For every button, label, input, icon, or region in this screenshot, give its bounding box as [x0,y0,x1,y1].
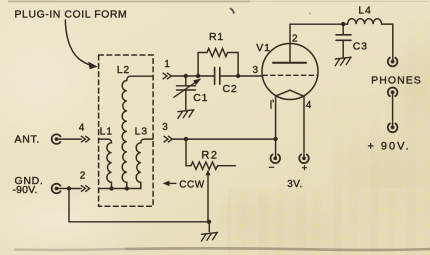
svg-text:CCW: CCW [179,179,204,190]
svg-text:ANT.: ANT. [15,134,41,146]
svg-text:PHONES: PHONES [371,75,422,87]
svg-text:3: 3 [162,122,168,133]
svg-text:C1: C1 [193,92,208,104]
svg-text:+ 90V.: + 90V. [367,141,410,153]
svg-text:3: 3 [253,65,259,76]
svg-text:4: 4 [79,122,85,133]
svg-text:L2: L2 [117,64,130,76]
svg-text:-90V.: -90V. [13,184,38,196]
svg-text:L1: L1 [100,126,113,138]
svg-text:R2: R2 [201,150,218,162]
svg-text:L3: L3 [135,126,148,138]
svg-text:1: 1 [164,59,170,70]
svg-text:C3: C3 [353,41,368,53]
svg-text:L4: L4 [358,4,371,16]
svg-text:2: 2 [292,33,298,44]
svg-text:R1: R1 [209,31,224,43]
svg-text:PLUG-IN COIL FORM: PLUG-IN COIL FORM [15,9,128,21]
svg-text:4: 4 [306,100,312,111]
svg-text:C2: C2 [222,83,237,95]
svg-text:V1: V1 [256,42,270,54]
svg-text:2: 2 [80,171,86,182]
svg-text:3V.: 3V. [287,179,303,190]
